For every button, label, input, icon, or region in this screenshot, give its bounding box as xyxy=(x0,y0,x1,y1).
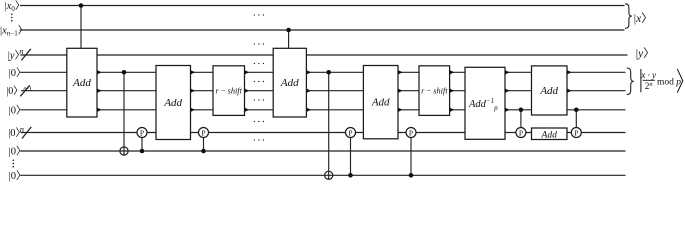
box U2 Add xyxy=(156,66,191,140)
control dot q0 xyxy=(79,3,84,8)
ellipsis row 5 xyxy=(254,99,264,100)
gate P1 xyxy=(137,128,147,138)
control line q5 to P6 xyxy=(575,110,577,128)
svg-text:|0〉: |0〉 xyxy=(8,127,26,139)
output arrows U5 xyxy=(398,70,403,112)
svg-text:P: P xyxy=(348,128,352,137)
control dot q5 right xyxy=(574,108,579,113)
svg-text:P: P xyxy=(519,128,523,137)
box U9 Add small xyxy=(532,128,568,140)
svg-text:Add: Add xyxy=(539,85,558,97)
svg-text:P: P xyxy=(140,128,144,137)
brace output result xyxy=(627,68,634,95)
register slash n on q6 xyxy=(22,127,31,139)
control line q3 to cnot X1 xyxy=(123,72,125,155)
wire q2 |y> xyxy=(20,54,627,56)
control dot q3 block1 xyxy=(122,70,127,75)
wire q6 |0> n xyxy=(21,132,626,134)
svg-text:|0〉: |0〉 xyxy=(9,146,27,158)
cnot target X1 on q7 xyxy=(120,147,128,155)
wire q8 |0> xyxy=(20,174,625,176)
svg-text:|y〉: |y〉 xyxy=(636,47,655,60)
register slash on q4 xyxy=(20,85,29,96)
control dot q1 xyxy=(286,28,291,33)
output arrows U3 xyxy=(245,70,250,112)
control dot q8 left xyxy=(348,173,353,178)
control dot q7 right xyxy=(201,149,206,154)
ellipsis row 6 xyxy=(254,121,264,122)
brace output x xyxy=(625,4,632,29)
svg-text:2n: 2n xyxy=(645,81,653,91)
svg-text:P: P xyxy=(409,128,413,137)
svg-text:P: P xyxy=(201,128,205,137)
label ket result out xyxy=(640,69,682,93)
gate P5 xyxy=(516,128,526,138)
svg-text:Add−1p: Add−1p xyxy=(468,97,498,112)
gate P6 xyxy=(571,128,581,138)
control line U1 to q0 xyxy=(80,6,82,49)
ellipsis row 4 xyxy=(254,81,264,82)
svg-text:mod p: mod p xyxy=(657,77,681,87)
control line U4 to q1 xyxy=(288,30,290,48)
svg-text:P: P xyxy=(574,128,578,137)
box U1 Add xyxy=(67,48,97,117)
svg-text:|y〉: |y〉 xyxy=(8,50,25,62)
output arrows U6 xyxy=(450,70,455,112)
wire q0 |x0> xyxy=(20,5,625,7)
cnot target X2 on q8 xyxy=(325,171,333,179)
box U3 r-shift xyxy=(213,66,245,116)
control dot q5 left xyxy=(519,108,524,113)
wire q1 |x n-1> xyxy=(20,29,625,31)
output arrows U2 xyxy=(191,70,196,112)
ellipsis row 7 xyxy=(254,139,264,140)
output arrows U4 xyxy=(306,70,311,112)
gate P2 xyxy=(199,128,209,138)
control line q3 to cnot X2 xyxy=(328,72,330,179)
output arrows U8 xyxy=(567,70,572,93)
register slash n on q2 xyxy=(21,49,30,61)
control dot q3 block2 xyxy=(326,70,331,75)
gate P3 xyxy=(346,128,356,138)
svg-text:Add: Add xyxy=(371,97,390,109)
svg-text:Add: Add xyxy=(72,77,91,89)
control line P1 to q7 xyxy=(141,138,143,152)
control line q5 to P5 xyxy=(520,110,522,128)
wire q4 |0>^n-1 xyxy=(21,90,626,92)
control line P2 to q7 xyxy=(203,138,205,152)
wire q3 |0> xyxy=(20,71,625,73)
svg-text:Add: Add xyxy=(280,77,299,89)
control dot q8 right xyxy=(409,173,414,178)
wire q7 |0> xyxy=(20,150,625,152)
svg-text:|0〉: |0〉 xyxy=(9,170,27,182)
output arrows U1 xyxy=(97,70,102,112)
svg-text:|x0〉: |x0〉 xyxy=(5,0,26,13)
svg-text:Add: Add xyxy=(163,97,182,109)
ellipsis row 1 xyxy=(254,14,264,15)
svg-text:Add: Add xyxy=(541,130,558,140)
svg-text:r − shift: r − shift xyxy=(421,87,448,96)
output arrows U7 xyxy=(505,70,510,112)
control dot q7 left xyxy=(140,149,145,154)
box U5 Add xyxy=(363,66,398,139)
svg-text:x · y: x · y xyxy=(640,70,656,80)
control line P4 to q8 xyxy=(410,138,412,176)
vertical dots left top xyxy=(11,14,13,22)
svg-text:r − shift: r − shift xyxy=(215,87,242,96)
ellipsis row 3 xyxy=(254,63,264,64)
svg-text:|xn−1〉: |xn−1〉 xyxy=(0,25,28,38)
ellipsis row 2 xyxy=(254,43,264,44)
wire q5 |0> xyxy=(20,109,625,111)
box U7 Add^-1 p xyxy=(465,67,505,139)
svg-text:|0〉: |0〉 xyxy=(9,67,27,79)
box U6 r-shift xyxy=(419,66,450,116)
box U8 Add xyxy=(532,66,568,115)
svg-text:|0〉n-1: |0〉n-1 xyxy=(6,85,32,97)
svg-text:|x〉: |x〉 xyxy=(634,12,653,25)
gate P4 xyxy=(406,128,416,138)
control line P3 to q8 xyxy=(350,138,352,176)
vertical dots left bottom xyxy=(13,160,15,168)
box U4 Add xyxy=(273,48,306,117)
svg-text:|0〉: |0〉 xyxy=(9,104,27,116)
